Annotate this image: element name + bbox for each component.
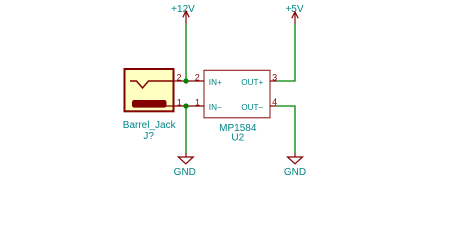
svg-text:2: 2 [195, 72, 200, 82]
svg-text:J?: J? [143, 131, 154, 142]
svg-text:4: 4 [272, 97, 277, 107]
svg-text:1: 1 [195, 97, 200, 107]
svg-text:GND: GND [284, 167, 306, 178]
svg-text:OUT+: OUT+ [241, 78, 263, 87]
wire pin 4 to GND right [276, 106, 295, 153]
svg-text:U2: U2 [231, 133, 244, 144]
barrel jack sleeve bar [132, 100, 167, 108]
connector J? Barrel_Jack body [125, 69, 174, 111]
svg-text:2: 2 [176, 72, 181, 82]
regulator U2 MP1584 body [204, 70, 270, 118]
power flag +5V [285, 4, 303, 24]
svg-text:Barrel_Jack: Barrel_Jack [123, 120, 177, 131]
ground symbol left [174, 153, 196, 178]
svg-text:IN+: IN+ [209, 78, 222, 87]
U2 pin 4 (OUT-) [270, 105, 277, 107]
power flag +12V [171, 4, 195, 23]
U2 pin 1 (IN-) [186, 105, 204, 107]
U2 pin 2 (IN+) [186, 80, 204, 82]
wire +5V down and to pin 3 [276, 24, 295, 82]
svg-text:+12V: +12V [171, 4, 195, 15]
wire +12V to junction [185, 24, 187, 82]
junction at pin2 row [183, 78, 188, 83]
wire junction to GND left [185, 106, 187, 153]
svg-text:3: 3 [272, 72, 277, 82]
svg-text:OUT−: OUT− [241, 103, 263, 112]
U2 pin 3 (OUT+) [270, 80, 277, 82]
barrel jack pin 2 [173, 80, 186, 82]
svg-text:IN−: IN− [209, 103, 222, 112]
junction at pin1 row [183, 103, 188, 108]
svg-text:GND: GND [174, 167, 196, 178]
svg-text:1: 1 [177, 97, 182, 107]
barrel jack pin 1 [163, 105, 186, 107]
ground symbol right [284, 153, 306, 178]
barrel jack tip contact (notch polyline) [130, 81, 173, 88]
